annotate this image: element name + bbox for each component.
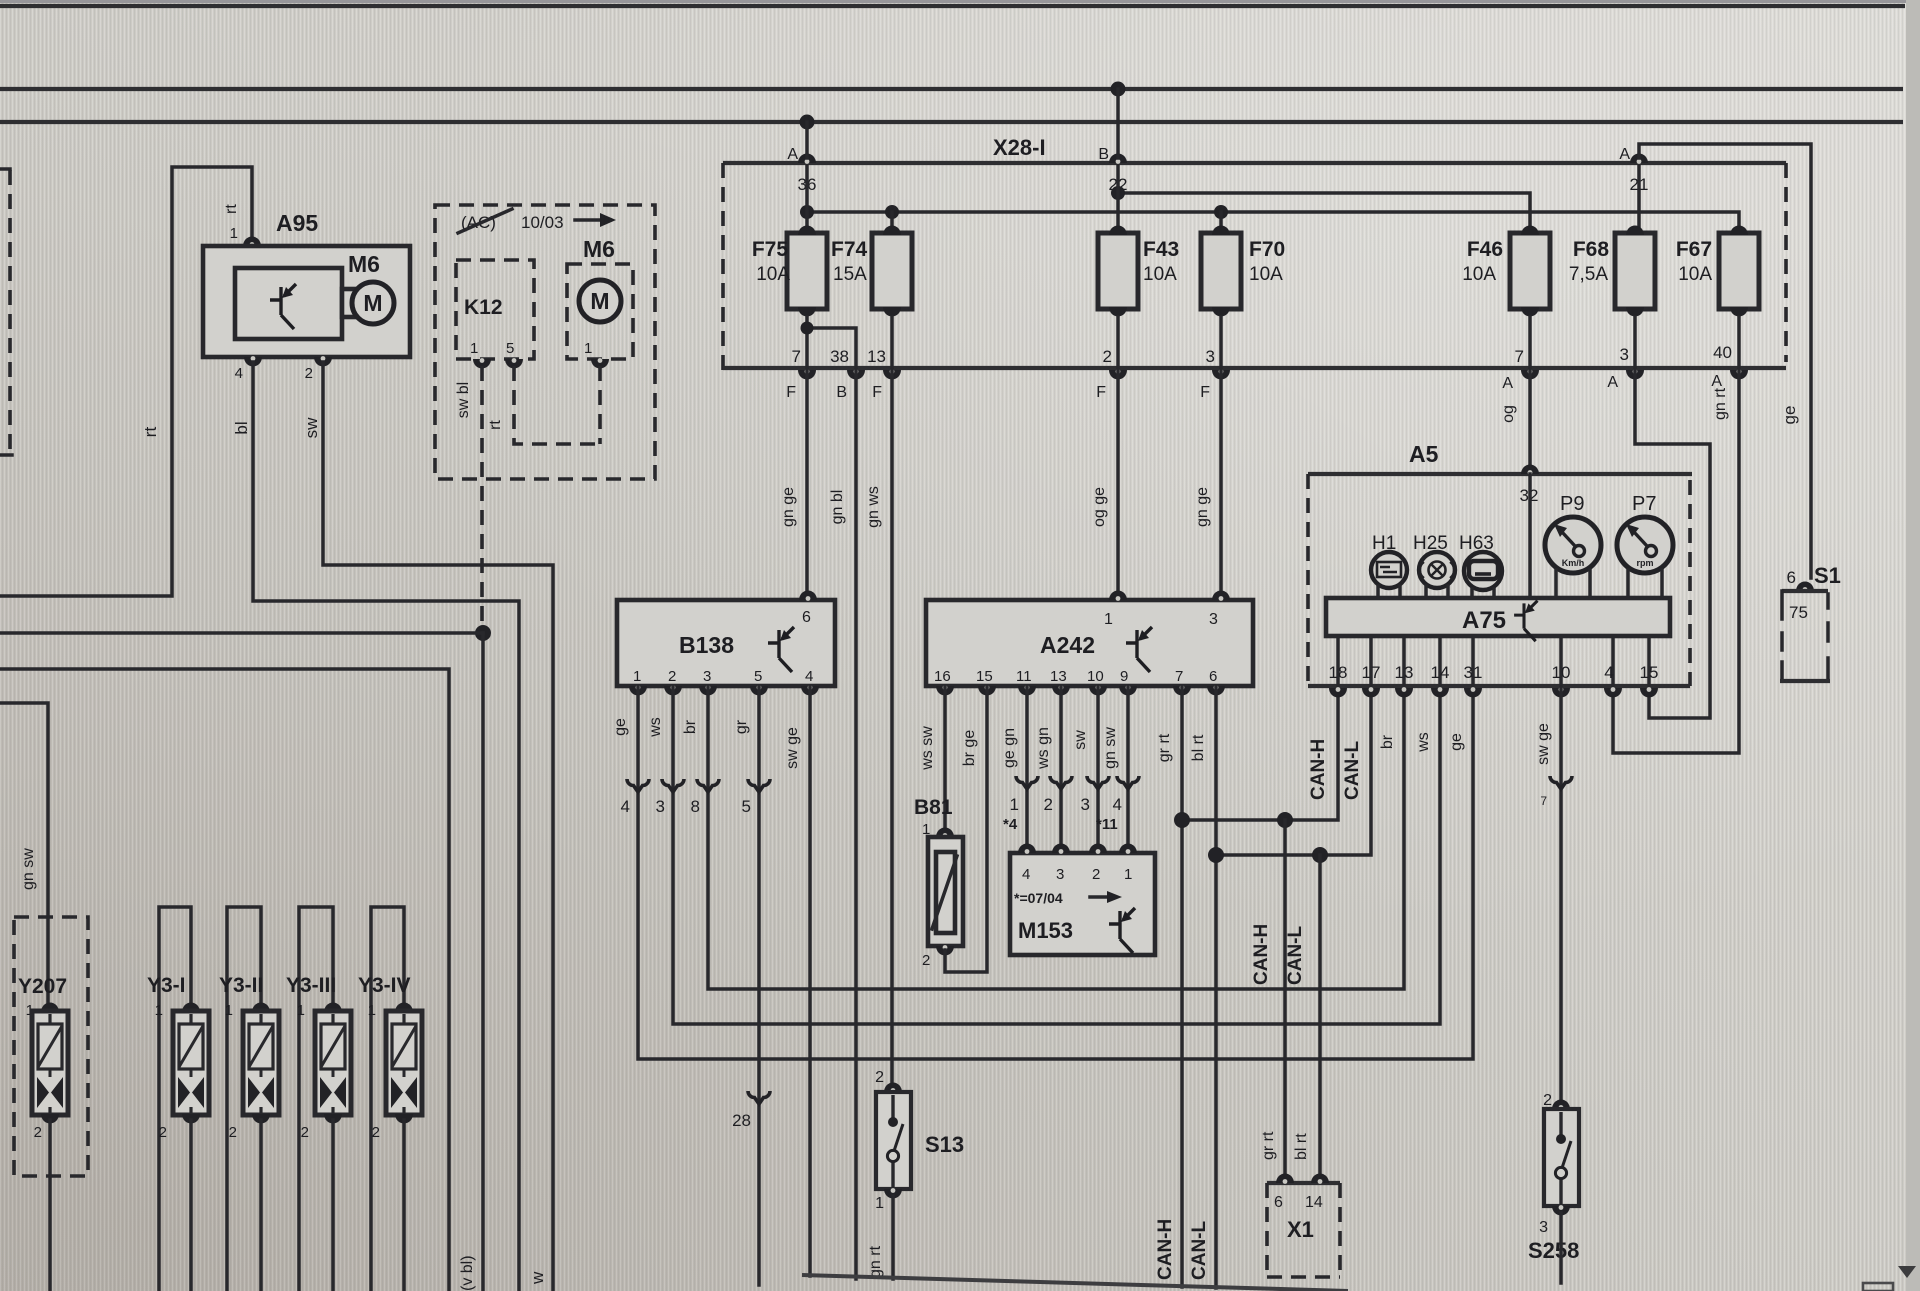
junction dot pin22 line: [1111, 186, 1125, 200]
label Y3-II: [219, 974, 263, 997]
X28-I pin 3 / A: [1607, 345, 1644, 391]
svg-text:3: 3: [656, 797, 665, 816]
svg-text:Y207: Y207: [18, 975, 67, 998]
label bl rt (X1): [1293, 1133, 1310, 1160]
svg-text:10A: 10A: [1462, 264, 1496, 285]
svg-text:3: 3: [1081, 795, 1090, 814]
junction dot F74: [885, 205, 899, 219]
svg-text:3: 3: [1206, 347, 1215, 366]
svg-text:1: 1: [633, 668, 641, 685]
svg-text:2: 2: [1543, 1092, 1552, 1109]
svg-text:Km/h: Km/h: [1562, 558, 1585, 568]
svg-text:ws: ws: [1415, 732, 1432, 753]
A5 pin 14: [1431, 663, 1450, 698]
svg-text:F: F: [1096, 384, 1106, 401]
svg-text:gn rt: gn rt: [867, 1245, 884, 1278]
wire F67 out to pin 40: [1737, 317, 1741, 368]
wire sw: A242 pin10 to M153 pin2: [1096, 686, 1100, 847]
dashed box edge at left page margin: [0, 169, 12, 455]
svg-text:10A: 10A: [1678, 264, 1712, 285]
svg-text:ge: ge: [612, 718, 629, 736]
svg-text:15: 15: [976, 668, 993, 685]
instrument cluster A5 dashed box: [1308, 441, 1692, 686]
A95 pin 2: [305, 356, 332, 382]
wire br ge: A242 pin15 to page bottom: [945, 686, 987, 972]
A5 pin 10: [1552, 663, 1571, 698]
gauge P9 speedometer: [1545, 493, 1601, 598]
svg-text:1: 1: [225, 1002, 233, 1019]
svg-text:F: F: [872, 384, 882, 401]
svg-text:F75: F75: [752, 238, 789, 261]
svg-text:rt: rt: [223, 204, 240, 214]
svg-text:A95: A95: [276, 210, 318, 236]
svg-text:X1: X1: [1287, 1217, 1314, 1242]
svg-text:10/03: 10/03: [521, 213, 564, 232]
wire pin 32 to A75: [1528, 474, 1532, 598]
X28-I pin A (right): [1619, 146, 1648, 164]
svg-text:2: 2: [1092, 866, 1100, 883]
A5 pin 4: [1604, 663, 1622, 698]
svg-text:1: 1: [155, 1002, 163, 1019]
control unit A242: [926, 600, 1253, 686]
svg-text:F: F: [786, 384, 796, 401]
A5 pin 31: [1464, 663, 1483, 698]
wire gn rt: S13 to page bottom: [891, 1196, 895, 1279]
wire sw ge: A5 pin10 to S258: [1559, 688, 1563, 1102]
dashed wire sw bl from K12 pin1: [480, 366, 484, 628]
fuse F75 10A: [752, 226, 827, 317]
svg-text:5: 5: [754, 668, 762, 685]
svg-text:2: 2: [875, 1069, 884, 1086]
svg-text:A75: A75: [1462, 607, 1506, 634]
wire pin B up to bus 2: [1116, 89, 1120, 158]
label ge (A5 pin31 wire): [1448, 733, 1465, 751]
label CAN-H (upper): [1308, 739, 1329, 800]
label gr rt (X1): [1260, 1131, 1277, 1160]
A242 pin 7: [1173, 668, 1191, 696]
wire ws: B138 pin2 to A5 pin14 (U route): [673, 686, 1440, 1024]
label Y3-I: [147, 974, 186, 997]
internal feed line from pin 22 (y193): [1118, 193, 1530, 233]
wire F70 out to pin 3: [1219, 317, 1223, 368]
svg-text:sw: sw: [1072, 730, 1089, 750]
wire gn rt: pin40A loop to A5 pin 4: [1613, 370, 1739, 753]
A242 pin 1: [1104, 591, 1127, 629]
svg-text:4: 4: [235, 365, 243, 382]
svg-text:1: 1: [1104, 611, 1113, 628]
wire og: pin7A to A5 pin 32: [1528, 370, 1532, 474]
svg-text:8: 8: [691, 797, 700, 816]
relay K12 dashed box: [456, 260, 534, 359]
X28-I pin 7 / F: [786, 347, 816, 401]
screen bottom edge line: [802, 1275, 1348, 1291]
feed line y703 to valve Y207: [0, 703, 48, 1007]
X28-I pin B: [1098, 146, 1127, 164]
svg-text:S1: S1: [1814, 563, 1841, 588]
wire F43 out to pin 2: [1116, 317, 1120, 368]
label sw ge: [784, 727, 801, 769]
wire gr rt: A242 pin7 down (CAN-H): [1180, 686, 1184, 1287]
X28-I pin 3 / F: [1200, 347, 1230, 401]
svg-text:CAN-H: CAN-H: [1155, 1219, 1176, 1280]
junction dot K12 wire / feed line: [475, 625, 491, 641]
wire F75 out to pin 7 with branch to pin 38: [801, 317, 857, 368]
svg-text:2: 2: [305, 365, 313, 382]
label w (bottom of sw wire): [528, 1271, 547, 1285]
internal feed line from pin 36 (y212): [807, 212, 1739, 233]
indicator H63: [1459, 533, 1502, 598]
svg-text:rt: rt: [487, 420, 504, 430]
A242 pin 10: [1087, 668, 1107, 696]
A242 pin 16: [934, 668, 954, 696]
label sw: [1072, 730, 1089, 750]
svg-text:15: 15: [1640, 663, 1659, 682]
svg-text:CAN-H: CAN-H: [1251, 924, 1272, 985]
svg-text:F70: F70: [1249, 238, 1285, 261]
svg-text:Y3-I: Y3-I: [147, 974, 186, 997]
pin bump A95 pin1: [243, 237, 261, 247]
svg-text:S258: S258: [1528, 1238, 1579, 1263]
wire (v bl) continuation to page bottom: [481, 633, 485, 1291]
label ws: [647, 717, 664, 738]
label ws sw: [919, 726, 936, 771]
top bus line 3: [0, 120, 1903, 124]
temperature sensor B81: [914, 796, 963, 969]
fuse F43 10A: [1098, 226, 1179, 317]
svg-text:F68: F68: [1573, 238, 1610, 261]
svg-text:11: 11: [1016, 668, 1032, 685]
label sw bl: [455, 382, 472, 418]
feed line into K12 junction from left edge: [0, 631, 483, 635]
svg-text:ws: ws: [647, 717, 664, 738]
svg-text:X28-I: X28-I: [993, 135, 1046, 160]
wire pin21 to F68: [1637, 166, 1641, 233]
svg-text:A5: A5: [1409, 441, 1439, 467]
wire bl rt to X1 pin 14: [1318, 855, 1322, 1176]
svg-text:3: 3: [1539, 1219, 1548, 1236]
indicator H25: [1413, 533, 1455, 598]
connector fork 4 on ge wire: [621, 779, 649, 816]
svg-text:18: 18: [1329, 663, 1348, 682]
svg-text:3: 3: [1056, 866, 1064, 883]
valve Y3-II loop wire: [227, 907, 261, 1291]
A5 pin 13: [1395, 663, 1414, 698]
label ge (S1 wire): [1780, 406, 1799, 425]
label rt: [141, 427, 160, 438]
svg-text:1: 1: [1124, 866, 1132, 883]
valve Y3-I loop wire: [159, 907, 191, 1291]
junction dot CAN-L at A242 wire: [1208, 847, 1224, 863]
connector fork 1 / *4: [1003, 776, 1038, 833]
wire gn bl: pin38 to screen edge: [854, 370, 858, 1279]
svg-text:gr: gr: [733, 719, 750, 734]
svg-text:1: 1: [470, 340, 478, 357]
wire F74 out to pin 13: [890, 317, 894, 368]
fuse F70 10A: [1201, 226, 1285, 317]
control unit A75: [1326, 598, 1670, 636]
gauge P7 tachometer: [1617, 493, 1673, 598]
switch S1: [1780, 563, 1841, 681]
wire ge: B138 pin1 to A5 pin31 (U route): [638, 686, 1473, 1059]
svg-text:M6: M6: [348, 251, 380, 277]
svg-text:10A: 10A: [1249, 264, 1283, 285]
wire rt: A95 pin1 up, left, down, exits left at y596: [0, 167, 252, 596]
label gr: [733, 719, 750, 734]
motor M6 inside A95: [348, 251, 394, 324]
label CAN-L (bottom): [1189, 1221, 1210, 1280]
valve Y3-II: [225, 1002, 279, 1141]
connector X1: [1267, 1174, 1340, 1278]
wire F46 out to pin 7: [1528, 317, 1532, 368]
scrollbar box bottom: [1863, 1283, 1893, 1291]
label Y3-III: [286, 974, 336, 997]
wire gn ws: pin13 to switch S13: [890, 370, 894, 1085]
label bl: [232, 421, 251, 434]
connector fork on S258 wire: [1540, 776, 1572, 808]
X28-I pin 36: [798, 175, 817, 194]
wire gn sw: A242 pin9 to M153 pin1: [1126, 686, 1130, 847]
sensor icon inside A95: [270, 284, 296, 329]
label ws gn: [1035, 727, 1052, 770]
motor M153: [1010, 844, 1155, 956]
svg-text:5: 5: [506, 340, 514, 357]
svg-text:*4: *4: [1003, 816, 1018, 833]
svg-text:w: w: [528, 1271, 547, 1285]
svg-text:B81: B81: [914, 796, 953, 819]
svg-text:F74: F74: [831, 238, 868, 261]
connector fork 8 on br wire: [691, 779, 719, 816]
switch S258: [1528, 1092, 1579, 1263]
top bus line 2: [0, 87, 1903, 91]
wire Y3-III pin2 to bottom: [331, 1120, 335, 1291]
svg-text:15A: 15A: [833, 264, 867, 285]
wire ws gn: A242 pin13 to M153 pin3: [1059, 686, 1063, 847]
svg-text:ge: ge: [1780, 406, 1799, 425]
svg-text:2: 2: [668, 668, 676, 685]
svg-text:Y3-IV: Y3-IV: [358, 974, 411, 997]
label CAN-H (middle): [1251, 924, 1272, 985]
label og ge: [1091, 487, 1108, 527]
svg-text:B: B: [836, 384, 847, 401]
wire Y3-II pin2 to bottom: [259, 1120, 263, 1291]
variant dashed box (AC) 10/03 with K12 and M6: [435, 205, 655, 479]
label gn ws: [865, 486, 882, 528]
svg-text:4: 4: [805, 668, 813, 685]
svg-text:7: 7: [1515, 347, 1524, 366]
connector box X28-I: [723, 135, 1786, 371]
svg-text:7: 7: [1540, 794, 1547, 808]
svg-text:P7: P7: [1632, 493, 1656, 515]
wire pin22 to F43: [1116, 166, 1120, 233]
svg-text:gr rt: gr rt: [1156, 733, 1173, 762]
svg-text:gn sw: gn sw: [20, 848, 37, 890]
svg-text:75: 75: [1789, 603, 1808, 622]
svg-text:sw: sw: [302, 417, 321, 439]
svg-text:2: 2: [34, 1124, 42, 1141]
svg-text:7: 7: [1175, 668, 1183, 685]
valve Y207: [26, 1002, 68, 1141]
wire sw: A95 pin2 down, right, down to page bottom: [323, 362, 553, 1291]
label gn rt (S13): [867, 1245, 884, 1278]
svg-text:4: 4: [621, 797, 630, 816]
svg-text:1: 1: [1010, 795, 1019, 814]
label ge gn: [1001, 728, 1018, 768]
label bl rt: [1190, 734, 1207, 761]
svg-text:bl rt: bl rt: [1190, 734, 1207, 761]
svg-text:38: 38: [830, 347, 849, 366]
A5 pin 18: [1329, 663, 1348, 698]
sensor icon M153: [1109, 908, 1135, 953]
svg-text:A: A: [1619, 146, 1630, 163]
svg-text:br ge: br ge: [961, 730, 978, 767]
A95 pin 4: [235, 356, 262, 382]
valve Y207 dashed variant box: [14, 917, 88, 1176]
svg-text:gr rt: gr rt: [1260, 1131, 1277, 1160]
X28-I pin 40 / A: [1711, 343, 1748, 390]
A242 pin 11: [1016, 668, 1036, 696]
wire F74 branch: [890, 212, 894, 233]
junction dot F75: [800, 205, 814, 219]
svg-text:ge: ge: [1448, 733, 1465, 751]
svg-text:2: 2: [922, 952, 930, 969]
label br ge: [961, 730, 978, 767]
label br (A5 pin13 wire): [1379, 734, 1396, 749]
svg-text:10: 10: [1552, 663, 1571, 682]
connector fork 3 (M153): [1081, 776, 1109, 814]
label sw: [302, 417, 321, 439]
X28-I pin 2 / F: [1096, 347, 1127, 401]
label (v bl): [459, 1255, 476, 1291]
label gr rt: [1156, 733, 1173, 762]
svg-text:rt: rt: [141, 427, 160, 438]
A75 legs to A5 pins: [1338, 636, 1649, 686]
wire F70 branch: [1219, 212, 1223, 233]
label og: [1500, 405, 1517, 423]
svg-text:13: 13: [1050, 668, 1067, 685]
B138 pin 4: [801, 668, 819, 696]
wire Y3-IV pin2 to bottom: [402, 1120, 406, 1291]
svg-text:F67: F67: [1676, 238, 1712, 261]
svg-text:gn ge: gn ge: [1194, 487, 1211, 527]
label CAN-H (bottom): [1155, 1219, 1176, 1280]
svg-text:P9: P9: [1560, 493, 1584, 515]
svg-text:B138: B138: [679, 632, 734, 658]
svg-text:6: 6: [1209, 668, 1217, 685]
indicator H1: [1371, 533, 1407, 598]
connector fork 3 on ws wire: [656, 779, 684, 816]
wire br: B138 pin3 to A5 pin13 (U route): [708, 686, 1404, 989]
wire pin A right loop to S1 (ge): [1639, 144, 1811, 578]
svg-text:ge gn: ge gn: [1001, 728, 1018, 768]
svg-text:1: 1: [297, 1002, 305, 1019]
svg-text:1: 1: [584, 340, 592, 357]
svg-text:og: og: [1500, 405, 1517, 423]
dashed wire rt from K12 pin5 to M6 pin1: [514, 366, 600, 444]
junction dot CAN-H branch to X1: [1277, 812, 1293, 828]
svg-text:sw ge: sw ge: [1535, 723, 1552, 765]
svg-text:M6: M6: [583, 236, 615, 262]
svg-text:Y3-II: Y3-II: [219, 974, 263, 997]
svg-text:CAN-H: CAN-H: [1308, 739, 1329, 800]
svg-text:7: 7: [792, 347, 801, 366]
label Y207: [18, 975, 67, 998]
A242 pin 6: [1207, 668, 1225, 696]
svg-text:10: 10: [1087, 668, 1104, 685]
B138 pin 1: [629, 668, 647, 696]
wire pin A up to bus 3: [805, 122, 809, 158]
label gn sw: [1102, 727, 1119, 769]
A242 pin 13: [1050, 668, 1070, 696]
B138 pin 5: [750, 668, 768, 696]
label sw ge (S258 wire): [1535, 723, 1552, 765]
svg-text:2: 2: [301, 1124, 309, 1141]
svg-text:*11: *11: [1096, 816, 1118, 833]
svg-text:2: 2: [1103, 347, 1112, 366]
svg-text:6: 6: [802, 609, 811, 626]
wire gn ge: pin7 to B138 pin 6: [805, 370, 809, 594]
A5 pin 17: [1362, 663, 1381, 698]
svg-text:gn ge: gn ge: [780, 487, 797, 527]
label gn ge (right): [1194, 487, 1211, 527]
svg-text:gn bl: gn bl: [829, 490, 846, 525]
label gn sw: [20, 848, 37, 890]
svg-text:Y3-III: Y3-III: [286, 974, 336, 997]
svg-text:F46: F46: [1467, 238, 1503, 261]
label ge: [612, 718, 629, 736]
svg-text:5: 5: [742, 797, 751, 816]
feed line y669 from left edge down to bottom: [0, 669, 449, 1291]
fuse F74 15A: [831, 226, 912, 317]
svg-text:3: 3: [703, 668, 711, 685]
svg-text:10A: 10A: [756, 264, 790, 285]
svg-text:13: 13: [867, 347, 886, 366]
svg-text:2: 2: [372, 1124, 380, 1141]
svg-text:3: 3: [1620, 345, 1629, 364]
wire pin36 to F75: [805, 166, 809, 233]
X28-I pin 7 / A: [1502, 347, 1539, 392]
svg-text:ws sw: ws sw: [919, 726, 936, 771]
valve Y3-IV loop wire: [371, 907, 404, 1291]
svg-text:K12: K12: [464, 296, 503, 319]
label CAN-L (middle): [1285, 926, 1306, 985]
sensor icon B138: [768, 627, 794, 672]
svg-text:6: 6: [1787, 568, 1796, 587]
scrollbar arrow: [1898, 1266, 1916, 1278]
label br: [682, 719, 699, 734]
wire gr: B138 pin5 to page bottom: [757, 686, 761, 1285]
wire bl: A95 pin4 down, right, down to page bottom: [253, 362, 519, 1291]
svg-text:ws gn: ws gn: [1035, 727, 1052, 770]
svg-text:A: A: [1502, 375, 1513, 392]
svg-text:gn rt: gn rt: [1712, 387, 1729, 420]
svg-text:S13: S13: [925, 1132, 964, 1157]
wire Y207 pin2 to bottom: [48, 1120, 52, 1291]
X28-I pin 21: [1630, 175, 1649, 194]
X28-I pin 22: [1109, 175, 1128, 194]
svg-text:28: 28: [732, 1111, 751, 1130]
svg-text:bl: bl: [232, 421, 251, 434]
fuse F68 7,5A: [1569, 226, 1655, 317]
svg-text:9: 9: [1120, 668, 1128, 685]
svg-text:1: 1: [875, 1195, 884, 1212]
label gn bl: [829, 490, 846, 525]
svg-text:CAN-L: CAN-L: [1189, 1221, 1210, 1280]
switch S13: [875, 1069, 964, 1212]
junction dot CAN-L branch to X1: [1312, 847, 1328, 863]
svg-text:2: 2: [1044, 795, 1053, 814]
sensor icon A75: [1514, 601, 1537, 642]
wire ws sw: A242 pin16 to B81 and page bottom: [943, 686, 947, 830]
